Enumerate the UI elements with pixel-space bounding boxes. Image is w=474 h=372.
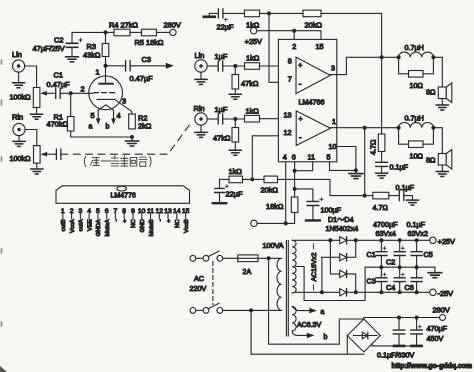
terminal mains input top xyxy=(190,255,196,261)
note (other channel same as above) xyxy=(84,156,151,167)
wire secondary bottom to D4 xyxy=(292,291,340,294)
svg-text:13: 13 xyxy=(284,111,292,120)
wire to speaker 2 xyxy=(433,128,442,154)
svg-text:2A: 2A xyxy=(243,267,252,276)
wire upper feedback drop xyxy=(381,13,383,57)
node pin5/pin10 ground junction xyxy=(354,168,358,172)
ground (Lin2 jack) xyxy=(195,72,207,84)
svg-text:8Ω: 8Ω xyxy=(426,88,436,97)
svg-text:VccA: VccA xyxy=(70,219,76,233)
IC package pinout LM4776 outline xyxy=(56,186,190,204)
svg-text:470µF: 470µF xyxy=(427,324,448,333)
svg-text:5: 5 xyxy=(91,111,95,120)
heater lead pin 5 with arrow a xyxy=(89,110,101,130)
ground (lower 47k) xyxy=(229,150,241,155)
svg-text:43kΩ: 43kΩ xyxy=(83,51,101,60)
ground (Lin jack) xyxy=(13,72,25,88)
svg-text:-: - xyxy=(299,133,302,142)
wire Lin jack to volume pot xyxy=(25,66,37,88)
svg-text:-25V: -25V xyxy=(438,289,454,298)
wire 280V rail xyxy=(364,318,440,320)
svg-text:C5: C5 xyxy=(424,250,433,259)
node -25V rail left xyxy=(354,290,358,294)
tube grid (pin 2) xyxy=(81,85,115,94)
fuse 2A xyxy=(223,255,258,276)
inductor L1 0.7uH xyxy=(399,43,434,57)
svg-text:LM4776: LM4776 xyxy=(111,193,136,200)
node pin2 supply junction xyxy=(292,29,296,33)
ground (0V rail) xyxy=(428,267,441,278)
capacitor C3 0.47uF output coupling xyxy=(106,55,154,83)
node lower output L xyxy=(397,126,401,130)
capacitor C5 0.1uF xyxy=(411,240,433,267)
svg-text:R4 27kΩ: R4 27kΩ xyxy=(109,21,138,30)
wire D2 anode drop xyxy=(321,257,323,292)
switch S1b xyxy=(196,303,223,313)
svg-text:MuteA: MuteA xyxy=(105,219,111,236)
wire lower zobel drop xyxy=(364,128,366,196)
svg-text:C3: C3 xyxy=(142,55,151,64)
node pin6/11 tie xyxy=(293,169,297,173)
node 280V rail caps xyxy=(397,316,419,320)
svg-text:2: 2 xyxy=(292,42,296,51)
svg-text:1kΩ: 1kΩ xyxy=(246,107,260,116)
svg-text:4.7Ω: 4.7Ω xyxy=(373,203,389,212)
svg-text:NC: NC xyxy=(131,219,137,228)
node grid junction xyxy=(69,91,73,95)
terminal 280V (plate supply) xyxy=(164,21,181,36)
svg-text:4700µF: 4700µF xyxy=(373,220,398,229)
wire R1 bottom to R2 bottom xyxy=(71,131,132,137)
svg-text:22µF: 22µF xyxy=(226,190,243,199)
label AC16Vx2 xyxy=(311,244,318,290)
scan artifact marks left edge xyxy=(1,60,3,326)
svg-text:11: 11 xyxy=(308,152,315,161)
capacitor C4 4700uF xyxy=(386,267,405,292)
terminal -25V feed circle xyxy=(251,220,257,226)
resistor 20k (lower feedback) xyxy=(261,176,365,196)
capacitor 470uF/450V xyxy=(411,318,448,346)
zobel C 0.1uF (lower channel) xyxy=(396,183,415,201)
svg-text:C1: C1 xyxy=(367,250,376,259)
svg-text:3: 3 xyxy=(122,97,126,106)
node pin4/-25V junction xyxy=(284,221,288,225)
transformer heater winding AC6.3V xyxy=(292,307,296,331)
capacitor C3 4700uF xyxy=(367,267,387,292)
capacitor 1uF (lower input) xyxy=(207,105,244,124)
capacitor C6 0.1uF xyxy=(405,267,423,292)
node grid row1 xyxy=(379,238,418,242)
bridge rectifier diamond xyxy=(347,319,380,352)
svg-text:+: + xyxy=(299,116,303,123)
wire C2 top to node R3 top xyxy=(72,31,106,33)
resistor 18k (mute) xyxy=(266,189,298,224)
svg-text:1: 1 xyxy=(96,68,100,77)
svg-text:VccB: VccB xyxy=(184,219,190,233)
scan artifact corner mark xyxy=(0,366,7,372)
op-amp IC U1 LM4766 outline xyxy=(278,39,336,161)
svg-text:1kΩ: 1kΩ xyxy=(229,167,243,176)
capacitor (second channel coupling) xyxy=(56,149,61,159)
svg-text:20kΩ: 20kΩ xyxy=(261,186,279,195)
svg-text:0.47µF: 0.47µF xyxy=(130,74,154,83)
svg-text:-: - xyxy=(114,219,120,221)
ground (upper 47k) xyxy=(229,94,241,99)
capacitor C2 47uF/25V xyxy=(33,32,83,56)
capacitor 22uF (upper feedback) xyxy=(209,9,234,32)
zobel R 4.7 ohm (lower channel) xyxy=(365,192,399,212)
capacitor C1 4700uF xyxy=(367,240,387,267)
wire pin 10 to ground xyxy=(337,147,356,171)
node grid mid row xyxy=(379,265,418,269)
svg-text:10Ω: 10Ω xyxy=(410,81,424,90)
capacitor 100uF (mute) xyxy=(295,189,342,220)
label D1-D4 xyxy=(326,215,359,233)
svg-text:1µF: 1µF xyxy=(215,105,228,114)
wire 0V mid rail xyxy=(365,266,435,268)
wire +25V rail xyxy=(356,239,430,241)
ground (speaker 2) xyxy=(436,165,448,177)
resistor R5 18k xyxy=(130,29,170,47)
terminal +25V xyxy=(245,28,263,47)
resistor 1k (to pin 13) xyxy=(245,107,297,123)
resistor 20k (upper feedback) xyxy=(269,10,382,29)
transformer primary winding xyxy=(277,258,282,310)
svg-text:b: b xyxy=(324,334,328,341)
ground (C2) xyxy=(66,57,79,62)
transformer secondary AC16Vx2 winding xyxy=(292,240,296,293)
svg-text:0.7µH: 0.7µH xyxy=(405,43,424,52)
svg-text:C1: C1 xyxy=(54,71,63,80)
diode D2 xyxy=(322,240,356,261)
svg-text:47kΩ: 47kΩ xyxy=(241,79,259,88)
svg-text:outB: outB xyxy=(61,219,67,231)
svg-text:10: 10 xyxy=(329,142,337,151)
label AC 220V xyxy=(190,274,207,293)
heater lead a with arrow xyxy=(292,307,324,316)
ground (R2) xyxy=(125,137,138,146)
svg-text:outA: outA xyxy=(79,219,85,231)
svg-text:R5 18kΩ: R5 18kΩ xyxy=(135,38,164,47)
node grid bottom row xyxy=(379,290,418,294)
svg-text:VEE: VEE xyxy=(87,219,93,231)
svg-text:a: a xyxy=(89,124,93,131)
resistor R2 2k xyxy=(129,114,152,131)
svg-text:-: - xyxy=(158,219,164,221)
svg-text:AC: AC xyxy=(194,274,204,283)
capacitor 22uF (lower feedback) xyxy=(215,179,243,202)
svg-text:MuteB: MuteB xyxy=(149,219,155,236)
resistor 10 ohm (parallel L1) xyxy=(399,57,434,90)
svg-text:0.1µF: 0.1µF xyxy=(396,183,415,192)
resistor 1k (to pin 8) xyxy=(245,54,297,70)
svg-text:280V: 280V xyxy=(164,21,181,30)
svg-text:18kΩ: 18kΩ xyxy=(266,202,284,211)
potentiometer 100k (lower volume) xyxy=(10,146,41,164)
svg-text:4.7Ω: 4.7Ω xyxy=(369,139,378,155)
svg-text:AC6.3V: AC6.3V xyxy=(297,322,321,329)
resistor 47k (upper input bias) xyxy=(232,66,259,94)
ground (lower zobel) xyxy=(407,200,419,205)
zobel R 4.7 ohm (upper channel) xyxy=(369,57,385,162)
svg-text:5: 5 xyxy=(327,152,331,161)
speaker SP2 8 ohm xyxy=(426,150,452,170)
ground (Rin2 jack) xyxy=(195,125,207,137)
svg-text:100VA: 100VA xyxy=(263,241,284,250)
svg-text:8Ω: 8Ω xyxy=(426,156,436,165)
node R2 bottom xyxy=(130,135,134,139)
dashed wire to other channel xyxy=(61,124,191,155)
svg-text:1µF: 1µF xyxy=(215,52,228,61)
package pin numbers 1-15 xyxy=(61,208,190,215)
tube cathode lead (pin 3) to R2 xyxy=(115,97,132,115)
svg-text:http://www.go-gddq.com: http://www.go-gddq.com xyxy=(392,363,473,370)
input jack Rin (power amp lower) xyxy=(194,104,208,125)
zobel C 0.1uF (upper channel) xyxy=(376,162,409,172)
svg-text:0.7µH: 0.7µH xyxy=(405,114,424,123)
svg-text:Rin: Rin xyxy=(194,104,205,113)
wire pin 11 tie xyxy=(295,162,313,171)
speaker SP1 8 ohm xyxy=(426,83,452,103)
svg-text:0.47µF: 0.47µF xyxy=(47,80,71,89)
diode D3 xyxy=(330,240,355,292)
svg-text:C3: C3 xyxy=(367,277,376,286)
resistor R3 43k xyxy=(83,32,109,65)
svg-text:1kΩ: 1kΩ xyxy=(246,54,260,63)
svg-text:2kΩ: 2kΩ xyxy=(138,122,152,131)
svg-text:LM4766: LM4766 xyxy=(299,98,325,107)
wire C1 to grid node xyxy=(60,92,93,94)
svg-text:22µF: 22µF xyxy=(217,23,234,32)
wire C3 to output arrow xyxy=(130,63,174,69)
node switch output xyxy=(249,308,253,312)
node upper output/feedback xyxy=(380,55,384,59)
svg-text:C4: C4 xyxy=(386,283,395,292)
svg-text:+: + xyxy=(122,219,128,223)
label 4700uF 63Vx4 xyxy=(373,220,398,238)
svg-text:4: 4 xyxy=(117,111,121,120)
node lower input xyxy=(233,117,237,121)
diode D1 xyxy=(340,237,356,244)
input jack Rin (second channel) xyxy=(12,113,25,136)
svg-text:1N5402x4: 1N5402x4 xyxy=(326,224,359,233)
node tube plate junction xyxy=(104,64,108,68)
wire feedback node to pin 7 xyxy=(260,13,297,82)
node upper feedback junction xyxy=(267,11,271,15)
terminal +25V output xyxy=(430,237,455,246)
svg-text:470kΩ: 470kΩ xyxy=(47,120,69,129)
svg-text:12: 12 xyxy=(284,128,292,137)
wire feedback node to pin 12 xyxy=(252,136,296,180)
resistor 47k (lower input bias) xyxy=(213,119,239,150)
node R3/R4 junction xyxy=(104,30,108,34)
svg-text:280V: 280V xyxy=(433,306,450,315)
svg-text:Lin: Lin xyxy=(195,51,205,60)
wiper arrow (lower pot) xyxy=(41,152,57,157)
ground (lower 22uF) xyxy=(213,202,226,204)
terminal 280V output xyxy=(433,306,450,321)
wire Rin jack to pot2 xyxy=(25,130,37,146)
op-amp A (upper) triangle xyxy=(296,57,330,93)
node lower zobel junction xyxy=(363,194,367,198)
svg-text:0.1µF: 0.1µF xyxy=(390,163,409,172)
ground (upper zobel) xyxy=(376,173,388,178)
wire output pin 3 xyxy=(330,57,398,74)
cap bottom plates thick xyxy=(394,345,422,348)
svg-text:20kΩ: 20kΩ xyxy=(305,21,323,30)
node upper input xyxy=(233,64,237,68)
svg-text:63Vx2: 63Vx2 xyxy=(408,229,428,238)
svg-text:3: 3 xyxy=(331,64,335,73)
svg-text:10Ω: 10Ω xyxy=(410,152,424,161)
resistor R1 470k xyxy=(47,93,75,131)
svg-text:8: 8 xyxy=(288,57,292,66)
ground (upper 22uF return) xyxy=(208,13,210,16)
node mute junction xyxy=(293,187,297,191)
switch link dashed xyxy=(212,262,214,305)
svg-text:+: + xyxy=(298,63,302,70)
node lower feedback junction xyxy=(250,177,254,181)
capacitor 1uF (upper input) xyxy=(207,52,244,71)
svg-text:100µF: 100µF xyxy=(321,206,342,215)
tube plate (pin 1) xyxy=(96,66,113,84)
potentiometer 100k (upper volume) xyxy=(10,88,40,108)
node D1 anode branch xyxy=(328,238,332,242)
svg-text:+25V: +25V xyxy=(245,37,263,46)
wire pin 4 to -25V feed xyxy=(285,162,287,224)
svg-text:0.1µF: 0.1µF xyxy=(407,220,426,229)
svg-text:4: 4 xyxy=(283,152,287,161)
wire secondary top to D1 xyxy=(292,239,340,241)
svg-text:0.1µF/630V: 0.1µF/630V xyxy=(377,351,415,360)
input jack Lin (left channel) xyxy=(12,50,25,72)
ground (lower pot) xyxy=(31,163,43,174)
wire bridge left vertex down xyxy=(346,336,348,355)
wire +25V to pins 2 and 15 xyxy=(257,31,321,40)
svg-text:C6: C6 xyxy=(405,283,414,292)
diode D4 xyxy=(340,289,356,296)
wire output pin 1 xyxy=(330,127,398,129)
resistor 1k (lower feedback) xyxy=(220,167,265,183)
wiper arrow (upper pot) xyxy=(40,91,55,96)
ground (upper pot) xyxy=(31,108,43,120)
svg-text:D1～D4: D1～D4 xyxy=(328,215,354,224)
svg-text:47kΩ: 47kΩ xyxy=(213,134,231,143)
node lower output/zobel tap xyxy=(363,126,367,130)
svg-text:450V: 450V xyxy=(427,334,444,343)
capacitor C1 0.47uF xyxy=(47,71,71,99)
svg-text:+25V: +25V xyxy=(438,237,456,246)
heater lead pin 4 with arrow b xyxy=(106,110,121,130)
svg-text:100kΩ: 100kΩ xyxy=(10,154,32,163)
node L1 right xyxy=(431,55,435,59)
resistor 10 ohm (parallel L2) xyxy=(399,128,434,161)
wire -25V rail xyxy=(356,291,430,293)
wire fuse to transformer xyxy=(258,257,278,259)
wire bridge feed lower (from switch node) xyxy=(251,310,364,354)
svg-text:6: 6 xyxy=(292,152,296,161)
svg-text:a: a xyxy=(321,309,325,316)
package pin function labels xyxy=(61,219,190,237)
svg-text:100kΩ: 100kΩ xyxy=(10,93,32,102)
package pin stubs xyxy=(63,214,186,218)
terminal -25V output xyxy=(430,289,453,298)
tube cathode xyxy=(97,98,115,100)
wire switch to transformer bottom xyxy=(223,309,279,311)
resistor 1k (upper feedback) xyxy=(223,10,260,29)
wire pin 5 to ground xyxy=(330,162,356,171)
wire pin 6 down xyxy=(294,162,296,189)
wire -25V feed xyxy=(257,222,295,224)
tube heater filament xyxy=(98,105,113,110)
ground (pin5/pin10) xyxy=(349,170,363,178)
capacitor C2 4700uF xyxy=(386,240,405,267)
svg-text:NC: NC xyxy=(175,219,181,228)
capacitor 0.1uF/630V xyxy=(393,318,404,346)
svg-text:b: b xyxy=(106,124,110,131)
svg-text:15: 15 xyxy=(316,42,324,51)
svg-text:-: - xyxy=(299,80,302,89)
svg-text:GNDA: GNDA xyxy=(96,219,102,236)
svg-text:+: + xyxy=(166,219,172,223)
op-amp B (lower) triangle xyxy=(296,111,330,146)
svg-text:1: 1 xyxy=(332,117,336,126)
wire center tap to 0V rail xyxy=(296,267,365,301)
svg-text:220V: 220V xyxy=(190,284,207,293)
heater lead b with arrow xyxy=(292,331,327,341)
node upper output L xyxy=(397,55,401,59)
svg-text:Rin: Rin xyxy=(12,113,23,122)
node D4 anode branch xyxy=(320,290,324,294)
svg-text:47µF/25V: 47µF/25V xyxy=(33,44,65,53)
svg-text:GND: GND xyxy=(140,219,146,232)
svg-text:AC16Vx2: AC16Vx2 xyxy=(311,252,318,281)
svg-text:7: 7 xyxy=(288,75,292,84)
tube V1 envelope xyxy=(89,76,123,110)
ground (Rin jack) xyxy=(13,136,25,147)
svg-text:63Vx4: 63Vx4 xyxy=(376,229,396,238)
svg-text:C2: C2 xyxy=(386,258,395,267)
label 0.1uF 63Vx2 xyxy=(407,220,428,238)
inductor L2 0.7uH xyxy=(399,114,434,128)
ground (speaker 1) xyxy=(436,99,448,111)
terminal mains input bottom xyxy=(190,308,196,314)
svg-text:2: 2 xyxy=(81,85,85,94)
node +25V rail left xyxy=(354,238,358,242)
switch S1a xyxy=(196,251,223,261)
ground (100uF) xyxy=(306,219,320,221)
resistor R4 27k xyxy=(106,21,139,36)
transformer core xyxy=(286,241,288,337)
input jack Lin (power amp upper) xyxy=(195,51,208,72)
wire to speaker 1 xyxy=(433,57,442,87)
wire bridge bottom to caps xyxy=(372,344,421,346)
svg-text:Lin: Lin xyxy=(12,50,22,59)
wire bridge feed upper (from fuse node) xyxy=(269,258,364,344)
node L2 right xyxy=(431,126,435,130)
node fuse output xyxy=(267,256,271,260)
